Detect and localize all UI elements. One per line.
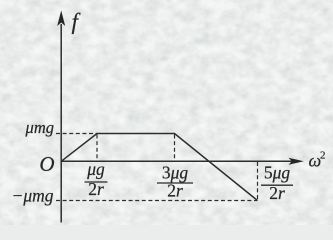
svg-text:2r: 2r — [88, 179, 104, 199]
dashed horizontal at -umg — [56, 200, 258, 202]
dashed vertical at 5ug/2r — [257, 162, 259, 201]
svg-text:5μg: 5μg — [264, 162, 291, 182]
svg-text:O: O — [39, 152, 54, 176]
curve: rise, plateau, descent — [61, 134, 257, 201]
svg-text:2: 2 — [320, 150, 326, 162]
dashed horizontal at +umg — [56, 133, 97, 135]
svg-text:μg: μg — [86, 159, 105, 179]
svg-text:2r: 2r — [269, 183, 285, 203]
dashed vertical at 3ug/2r — [174, 135, 176, 162]
x axis — [61, 160, 292, 162]
svg-text:μmg: μmg — [25, 118, 54, 137]
svg-text:−μmg: −μmg — [12, 185, 54, 205]
dashed vertical at ug/2r — [96, 135, 98, 162]
svg-text:3μg: 3μg — [162, 162, 189, 182]
y axis — [60, 24, 62, 223]
svg-text:2r: 2r — [167, 180, 183, 200]
